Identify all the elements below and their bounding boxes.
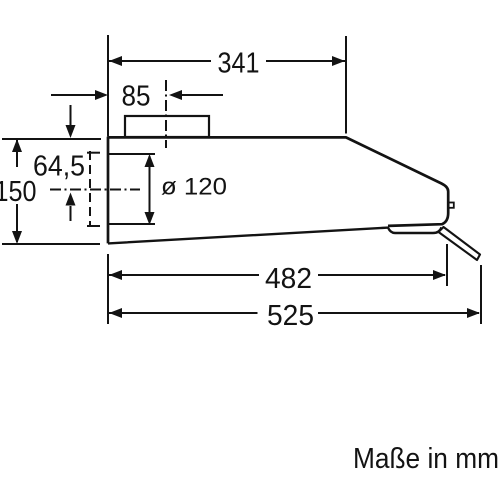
- svg-text:525: 525: [267, 300, 314, 332]
- dimension line 341 left segment: [109, 60, 211, 62]
- dimension line 525 left segment: [109, 312, 258, 314]
- hidden duct dashed vertical: [89, 151, 91, 227]
- 64,5 upper arrow (points down to top line): [70, 105, 72, 126]
- extension line 482 right: [446, 244, 448, 286]
- damper nub on right edge: [449, 203, 454, 208]
- extension line left vertical x=108: [107, 35, 109, 136]
- dimension line 482 left segment: [109, 274, 259, 276]
- dimension line 150 lower segment: [16, 204, 18, 242]
- dimension 85 right arrow tail: [181, 94, 223, 96]
- svg-text:Maße in mm: Maße in mm: [353, 443, 499, 475]
- arrowhead 85 right (points left at centerline): [169, 90, 182, 100]
- arrowhead 341 left: [109, 56, 122, 66]
- extension line 525 right: [480, 265, 482, 324]
- arrowhead 150 bottom: [12, 231, 22, 244]
- duct hole top line (solid): [108, 153, 155, 155]
- svg-text:ø 120: ø 120: [161, 174, 227, 201]
- duct collar box on hood top: [125, 116, 209, 137]
- hood body outline: [108, 137, 448, 243]
- extension line 482/525 left: [107, 254, 109, 324]
- 64,5 lower arrow (points up to centerline): [70, 206, 72, 221]
- svg-text:482: 482: [265, 263, 312, 295]
- dimension line 482 right segment: [318, 274, 445, 276]
- svg-text:341: 341: [218, 48, 260, 80]
- arrowhead 85 left (points right at extension line): [95, 90, 108, 100]
- arrowhead dia120 bottom: [145, 212, 155, 225]
- wall mounting chute (diagonal strip): [439, 227, 481, 260]
- arrowhead dia120 top: [145, 154, 155, 167]
- arrowhead 150 top: [12, 139, 22, 152]
- dimension line 150 upper segment: [16, 140, 18, 167]
- hidden duct dashed bottom stub: [87, 225, 100, 227]
- dimension line 525 right segment: [318, 312, 479, 314]
- dimension line 341 right segment: [266, 60, 345, 62]
- arrowhead 525 left: [109, 308, 122, 318]
- dimension 85 left arrow tail: [51, 94, 97, 96]
- hole centerline (horizontal dash-dot): [50, 189, 140, 191]
- hidden duct dashed top stub: [87, 152, 100, 154]
- svg-text:85: 85: [122, 81, 151, 113]
- arrowhead 482 left: [109, 270, 122, 280]
- arrowhead 482 right: [433, 270, 446, 280]
- centerline of duct (vertical dash-dot): [165, 80, 167, 148]
- arrowhead 525 right: [467, 308, 480, 318]
- svg-text:64,5: 64,5: [33, 151, 85, 183]
- extension line 150 top: [2, 138, 101, 140]
- hood bottom front edge with lip groove: [108, 227, 442, 243]
- svg-text:150: 150: [0, 176, 37, 208]
- duct hole bottom line (solid): [108, 223, 155, 225]
- diameter 120 dimension line: [149, 156, 151, 222]
- extension line 150 bottom: [2, 243, 100, 245]
- arrowhead 341 right: [332, 56, 345, 66]
- extension line right vertical x=346: [345, 36, 347, 134]
